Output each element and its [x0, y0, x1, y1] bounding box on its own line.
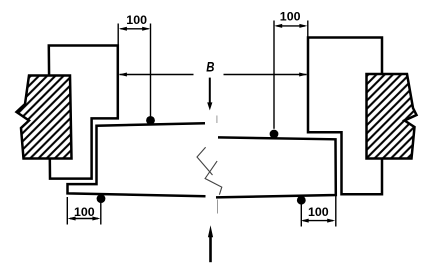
svg-text:B: B [206, 60, 214, 75]
svg-text:100: 100 [74, 205, 95, 219]
svg-text:100: 100 [280, 10, 301, 24]
svg-text:100: 100 [308, 205, 329, 219]
svg-text:100: 100 [126, 13, 147, 27]
